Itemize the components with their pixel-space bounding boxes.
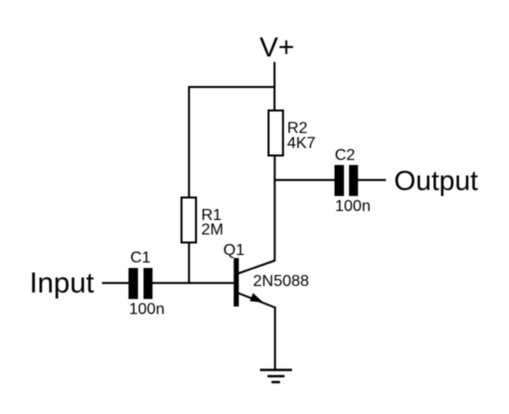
wire top horizontal bbox=[188, 86, 276, 88]
wire collector vertical bbox=[274, 156, 276, 261]
svg-text:4K7: 4K7 bbox=[287, 135, 316, 152]
resistor R2 bbox=[269, 111, 284, 156]
svg-text:V+: V+ bbox=[260, 31, 295, 62]
wire collector junction to C2 bbox=[274, 179, 335, 181]
wire C1 to base bbox=[153, 282, 234, 284]
capacitor C2 bbox=[335, 165, 359, 196]
svg-text:Input: Input bbox=[30, 268, 95, 300]
svg-text:2N5088: 2N5088 bbox=[253, 273, 309, 290]
transistor Q1 bbox=[234, 258, 275, 308]
wire C2 to output bbox=[358, 179, 386, 181]
resistor R1 bbox=[182, 198, 197, 243]
svg-text:Output: Output bbox=[394, 165, 478, 196]
svg-text:2M: 2M bbox=[201, 221, 223, 238]
ground bbox=[260, 370, 292, 382]
svg-text:100n: 100n bbox=[129, 301, 165, 318]
svg-text:C2: C2 bbox=[335, 147, 356, 164]
svg-text:Q1: Q1 bbox=[223, 242, 244, 259]
wire V+ stem bbox=[274, 62, 276, 110]
svg-text:100n: 100n bbox=[335, 198, 371, 215]
wire left stem to R1 bbox=[188, 86, 190, 197]
wire input to C1 bbox=[102, 282, 129, 284]
svg-text:C1: C1 bbox=[130, 249, 151, 266]
wire R1 to input line bbox=[188, 243, 190, 285]
capacitor C1 bbox=[129, 268, 153, 299]
wire emitter vertical bbox=[274, 307, 276, 371]
